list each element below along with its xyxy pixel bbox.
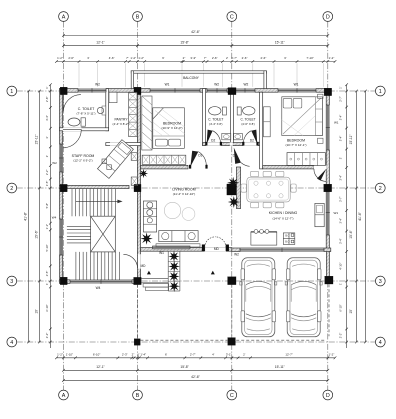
- bedroom2 south wall: [263, 165, 314, 169]
- dining chair left: [241, 184, 246, 192]
- svg-text:MD: MD: [214, 247, 220, 251]
- svg-text:2'-6": 2'-6": [261, 56, 267, 60]
- svg-text:2'-7": 2'-7": [190, 352, 196, 356]
- svg-text:W2: W2: [52, 161, 57, 165]
- svg-text:(14'-6" X 12'-7"): (14'-6" X 12'-7"): [273, 216, 294, 220]
- svg-text:MD: MD: [141, 264, 147, 268]
- svg-text:1'-2": 1'-2": [57, 352, 63, 356]
- svg-text:2'-6": 2'-6": [68, 56, 74, 60]
- dining chairs bottom: [251, 202, 259, 207]
- car 2: [287, 258, 320, 337]
- entry walk border: [167, 252, 169, 291]
- arrow entry 2: [211, 271, 215, 275]
- grid bubble 4 right: [375, 337, 385, 347]
- svg-text:W1: W1: [294, 82, 299, 86]
- svg-text:2'-7": 2'-7": [339, 96, 343, 102]
- fridge: [315, 203, 324, 226]
- stair south wall: [60, 280, 141, 284]
- entry landing edge: [141, 277, 168, 279]
- dim overall top 42'-6": [64, 35, 328, 37]
- svg-text:1'-4": 1'-4": [140, 352, 146, 356]
- bedroom2 west wall: [260, 92, 263, 169]
- svg-text:D2: D2: [250, 138, 254, 142]
- svg-text:STAFF ROOM: STAFF ROOM: [72, 154, 95, 158]
- kitchen hall wall: [236, 167, 240, 209]
- svg-text:1: 1: [379, 89, 382, 95]
- svg-text:(4'-6" X 8'): (4'-6" X 8'): [241, 122, 254, 126]
- svg-text:42'-6": 42'-6": [191, 375, 200, 379]
- svg-text:1'-2": 1'-2": [329, 56, 335, 60]
- plant kitchen 2: [228, 196, 240, 208]
- toilets south wall: [203, 143, 263, 146]
- svg-text:7": 7": [126, 56, 129, 60]
- pantry counter: [109, 92, 117, 103]
- toilets middle wall: [231, 89, 234, 146]
- grid line 2: [17, 187, 381, 189]
- kitchenette counter: [143, 201, 156, 232]
- grid bubble 2 left: [7, 183, 17, 193]
- svg-text:6'-10": 6'-10": [339, 304, 343, 311]
- balcony west wall: [131, 71, 133, 90]
- bedroom2 bedside table bottom: [318, 138, 323, 143]
- door opening toilet D2 right: [243, 142, 257, 145]
- svg-text:2'-6": 2'-6": [212, 56, 218, 60]
- stair north wall: [60, 185, 130, 188]
- svg-text:BEDROOM: BEDROOM: [287, 139, 305, 143]
- grid bubble A top: [59, 12, 69, 22]
- window W4 stair south: [70, 280, 132, 284]
- door opening bedroom1 D1: [190, 165, 206, 169]
- entry walk plants: [168, 251, 179, 262]
- toilet1 wc: [68, 118, 80, 126]
- svg-text:W4: W4: [96, 286, 101, 290]
- svg-text:BEDROOM: BEDROOM: [163, 122, 181, 126]
- grid line A: [63, 22, 65, 391]
- column A3: [60, 277, 67, 284]
- svg-text:KICHEN / DINING: KICHEN / DINING: [269, 211, 298, 215]
- door bedroom2 east leaf+arc: [314, 169, 327, 182]
- svg-text:C: C: [230, 14, 234, 20]
- jamb MD left: [202, 245, 205, 251]
- stair left flight treads: [67, 225, 91, 227]
- window W2 toilet right: [235, 89, 255, 93]
- dining table: [247, 177, 290, 202]
- svg-text:D: D: [326, 393, 330, 399]
- svg-text:3'-1": 3'-1": [226, 352, 232, 356]
- bed bedroom1: [153, 108, 185, 149]
- door bedroom1 D1 dark leaf: [190, 151, 198, 167]
- staff room small item 2: [107, 165, 112, 170]
- grid bubble D bottom: [323, 390, 333, 400]
- staff room side table2: [131, 177, 137, 186]
- svg-text:B: B: [136, 393, 140, 399]
- window W2 garage front: [240, 248, 324, 252]
- svg-text:W1: W1: [334, 120, 339, 124]
- entry steps: [143, 284, 169, 287]
- bedroom1 east wall: [203, 89, 206, 146]
- exterior east wall carport: [326, 251, 329, 281]
- svg-text:1'-2": 1'-2": [130, 56, 136, 60]
- svg-text:D1: D1: [198, 154, 202, 158]
- dim overall right 41'-6": [365, 91, 367, 342]
- svg-text:15'-11": 15'-11": [34, 134, 38, 145]
- svg-text:12'-7": 12'-7": [285, 352, 292, 356]
- column C2: [227, 184, 236, 195]
- grid line 3: [17, 280, 381, 282]
- svg-text:W2: W2: [234, 253, 239, 257]
- jamb MD right: [226, 245, 229, 251]
- grid bubble B top: [133, 12, 143, 22]
- svg-text:D2: D2: [211, 138, 215, 142]
- grid bubble A bottom: [59, 390, 69, 400]
- grid bubble 4 left: [7, 337, 17, 347]
- staff room small item 1: [102, 159, 107, 164]
- svg-text:2'-2": 2'-2": [45, 170, 49, 176]
- svg-text:2'-8": 2'-8": [45, 97, 49, 103]
- svg-text:(10'-9" X 12'-0"): (10'-9" X 12'-0"): [162, 126, 183, 130]
- column C4: [228, 338, 236, 346]
- dim right detail: [346, 85, 348, 348]
- toilet2 wc: [209, 107, 221, 115]
- svg-text:(11'-4" X 12'-10"): (11'-4" X 12'-10"): [173, 192, 195, 196]
- svg-text:W2: W2: [244, 82, 249, 86]
- door opening staff room: [63, 128, 81, 131]
- svg-text:BALCONY: BALCONY: [183, 76, 200, 80]
- column A1: [60, 87, 67, 94]
- bedroom2 desk: [264, 107, 271, 137]
- svg-text:(4'-4" X 8'-2"): (4'-4" X 8'-2"): [113, 122, 130, 126]
- grid bubble 3 right: [375, 276, 385, 286]
- column B4: [134, 339, 140, 345]
- svg-text:1'-2": 1'-2": [57, 56, 63, 60]
- svg-text:B.O: B.O: [285, 241, 289, 244]
- exterior west wall: [60, 89, 63, 284]
- column D2: [324, 184, 332, 192]
- svg-text:15'-11": 15'-11": [349, 134, 353, 145]
- door toilet1 leaf+arc: [63, 95, 81, 113]
- svg-text:12'-1": 12'-1": [96, 365, 105, 369]
- svg-text:3: 3: [10, 279, 13, 285]
- main door MD opening: [205, 247, 227, 251]
- svg-text:(7'-8" X 5'-11"): (7'-8" X 5'-11"): [76, 112, 95, 116]
- svg-text:10': 10': [34, 309, 38, 314]
- door toilet D2 left dark leaf: [207, 130, 213, 145]
- dim extension lines top: [78, 63, 80, 87]
- svg-text:3'-3": 3'-3": [190, 56, 196, 60]
- svg-text:2: 2: [379, 186, 382, 192]
- grid line C: [231, 22, 233, 391]
- plant hall corner: [139, 169, 148, 178]
- svg-text:6'-10": 6'-10": [45, 304, 49, 311]
- column D3: [325, 276, 333, 284]
- balcony east wall: [264, 71, 267, 90]
- dining chair right: [291, 184, 296, 192]
- svg-text:3'-4": 3'-4": [339, 115, 343, 121]
- svg-text:2'-3": 2'-3": [122, 352, 128, 356]
- door opening pantry: [110, 142, 122, 145]
- kitchen counter stove: [251, 232, 277, 245]
- svg-text:3'-4": 3'-4": [339, 136, 343, 142]
- svg-text:1'-1": 1'-1": [45, 224, 49, 230]
- dim overall left 41'-8": [28, 91, 30, 342]
- svg-text:W1: W1: [165, 82, 170, 86]
- svg-text:15'-11": 15'-11": [275, 40, 286, 44]
- svg-text:15'-8": 15'-8": [180, 365, 189, 369]
- svg-text:1'-5": 1'-5": [45, 181, 49, 187]
- column C1: [228, 88, 236, 95]
- kitchen cabinet BO: [283, 233, 295, 245]
- toilet1 east wall: [106, 89, 109, 131]
- svg-text:B.C: B.C: [285, 235, 289, 238]
- ceiling fan ghost: [164, 202, 180, 218]
- svg-text:7'-10": 7'-10": [306, 56, 313, 60]
- svg-text:W1: W1: [334, 211, 339, 215]
- svg-text:15'-11": 15'-11": [275, 365, 286, 369]
- svg-text:15'-8": 15'-8": [180, 40, 189, 44]
- svg-text:2'-6": 2'-6": [242, 56, 248, 60]
- dim left detail: [49, 85, 51, 348]
- door jambs dark blocks: [205, 142, 207, 146]
- svg-text:D: D: [326, 14, 330, 20]
- arrow entry 1: [147, 271, 151, 275]
- toilet1 basin: [97, 107, 103, 113]
- grid line B: [137, 22, 139, 391]
- svg-text:42'-6": 42'-6": [191, 30, 200, 34]
- plant kitchen 1: [227, 177, 239, 189]
- entry walk cells: [168, 260, 180, 262]
- grid line 1: [17, 90, 381, 92]
- svg-text:2": 2": [183, 56, 186, 60]
- sofa living room: [159, 231, 198, 242]
- garage front wall: [232, 248, 331, 252]
- svg-text:2": 2": [132, 352, 135, 356]
- door opening bedroom2 east: [314, 165, 327, 169]
- dining chairs top: [251, 171, 259, 176]
- window W1 bedroom1: [150, 89, 200, 93]
- svg-text:W2: W2: [214, 82, 219, 86]
- window W2 staff room: [60, 144, 63, 172]
- svg-text:5'-10": 5'-10": [45, 244, 49, 251]
- svg-text:6'-10": 6'-10": [93, 352, 100, 356]
- staff room side table1: [131, 153, 137, 161]
- svg-text:C. TOILET: C. TOILET: [78, 107, 95, 111]
- door bedroom2 east dark leaf: [317, 169, 326, 181]
- grid bubble D top: [323, 12, 333, 22]
- plant living room: [140, 232, 152, 244]
- svg-text:PANTRY: PANTRY: [114, 118, 128, 122]
- svg-text:3'-4": 3'-4": [45, 115, 49, 121]
- svg-text:2'-5": 2'-5": [45, 271, 49, 277]
- svg-text:(10'-7" X 12'-1"): (10'-7" X 12'-1"): [286, 143, 307, 147]
- svg-text:41'-6": 41'-6": [358, 211, 362, 220]
- pantry south wall: [106, 143, 141, 146]
- column B1: [134, 87, 141, 94]
- toilet3 wc: [243, 107, 255, 115]
- svg-text:15'-6": 15'-6": [349, 229, 353, 238]
- svg-text:W4: W4: [52, 215, 57, 219]
- svg-text:2: 2: [10, 186, 13, 192]
- column D1: [324, 88, 331, 95]
- toilet1 south wall: [60, 128, 109, 131]
- svg-text:4: 4: [10, 340, 13, 346]
- window W4 stairwell: [60, 219, 63, 255]
- living room front wall: [141, 248, 232, 252]
- carport boundary dashed: [231, 285, 233, 336]
- dim left bays: [39, 91, 41, 342]
- svg-text:2'-2": 2'-2": [339, 333, 343, 339]
- main door MD double arc: [205, 237, 226, 248]
- dim overall bottom 42'-6": [64, 379, 328, 381]
- svg-text:(4'-4" X 8'): (4'-4" X 8'): [209, 122, 222, 126]
- bedroom2 wardrobe: [287, 153, 325, 166]
- svg-text:C: C: [230, 393, 234, 399]
- svg-text:(12'-2" X 9'-2"): (12'-2" X 9'-2"): [73, 159, 92, 163]
- column C3: [228, 277, 236, 285]
- wall on grid B: [138, 89, 141, 284]
- window W2 toilet left: [207, 89, 227, 93]
- svg-text:1'-10": 1'-10": [66, 352, 73, 356]
- svg-text:A: A: [62, 393, 66, 399]
- grid bubble 2 right: [375, 183, 385, 193]
- grid bubble 3 left: [7, 276, 17, 286]
- svg-text:4'-6": 4'-6": [109, 56, 115, 60]
- svg-text:A: A: [62, 14, 66, 20]
- stair lower flight treads: [75, 252, 77, 280]
- bed bedroom2: [282, 97, 323, 136]
- column A2: [60, 184, 67, 191]
- bedroom1 dresser: [142, 155, 186, 164]
- bedroom1 wardrobe: [142, 96, 152, 150]
- svg-text:W2: W2: [95, 82, 100, 86]
- window W1 kitchen east: [326, 190, 329, 235]
- column B2: [134, 184, 141, 191]
- svg-text:C. TOILET: C. TOILET: [208, 118, 223, 122]
- svg-text:LIVING ROOM: LIVING ROOM: [172, 188, 195, 192]
- stair door in B wall: [137, 254, 141, 269]
- stair landing X box: [91, 216, 116, 252]
- car 1: [242, 258, 275, 337]
- door bedroom2 D1 dark leaf: [234, 148, 241, 164]
- svg-text:4: 4: [379, 340, 382, 346]
- window W1 living front hatched sill: [153, 246, 191, 249]
- grid line 4: [17, 341, 381, 343]
- svg-text:1'-2": 1'-2": [329, 352, 335, 356]
- sofa back rail: [156, 244, 200, 247]
- svg-text:1: 1: [10, 89, 13, 95]
- dim bottom bays: [64, 369, 328, 371]
- dim top bays: [64, 45, 328, 47]
- svg-text:W1: W1: [159, 251, 164, 255]
- grid bubble C top: [227, 12, 237, 22]
- dim bottom detail: [57, 357, 336, 359]
- column B3: [134, 277, 142, 284]
- svg-text:B: B: [136, 14, 140, 20]
- door toilet D2 right dark leaf: [251, 130, 257, 145]
- svg-text:3'-4": 3'-4": [339, 175, 343, 181]
- svg-text:15'-6": 15'-6": [34, 229, 38, 238]
- toilet2 basin: [222, 133, 231, 139]
- toilet3 basin: [233, 133, 242, 139]
- svg-text:3: 3: [379, 279, 382, 285]
- window W2 toilet1: [78, 89, 106, 93]
- svg-text:5'-8": 5'-8": [45, 203, 49, 209]
- grid bubble 1 right: [375, 86, 385, 96]
- grid bubble B bottom: [133, 390, 143, 400]
- dim right bays: [356, 91, 358, 342]
- grid line D: [327, 22, 329, 391]
- window W1 bedroom2 east: [326, 105, 329, 150]
- bedroom1 south wall: [141, 165, 188, 169]
- svg-text:3'-4": 3'-4": [339, 238, 343, 244]
- svg-text:1'-2": 1'-2": [138, 56, 144, 60]
- svg-text:41'-8": 41'-8": [23, 211, 27, 220]
- stair upper flight treads: [71, 189, 73, 216]
- door opening bedroom2 D1: [230, 142, 233, 145]
- svg-text:7": 7": [204, 56, 207, 60]
- exterior north wall: [60, 89, 331, 93]
- dim top detail: [57, 61, 336, 63]
- exterior east wall upper: [326, 90, 329, 251]
- svg-text:4'-10": 4'-10": [339, 263, 343, 270]
- grid bubble 1 left: [7, 86, 17, 96]
- svg-text:2'-2": 2'-2": [45, 333, 49, 339]
- staff room bed: [97, 140, 133, 179]
- bedroom2 bedside table top: [318, 94, 323, 98]
- svg-text:3'-7": 3'-7": [339, 196, 343, 202]
- svg-text:D1: D1: [233, 154, 237, 158]
- svg-text:10': 10': [349, 309, 353, 314]
- pantry shelves: [129, 93, 138, 137]
- window W1 bedroom2: [278, 89, 316, 93]
- svg-text:C. TOILET: C. TOILET: [240, 118, 255, 122]
- svg-text:3'-4": 3'-4": [339, 218, 343, 224]
- balcony north wall: [131, 71, 266, 73]
- door opening toilet D2 left: [206, 142, 221, 145]
- svg-text:12'-1": 12'-1": [96, 40, 105, 44]
- door staff room leaf+arc: [63, 129, 81, 147]
- svg-text:3'-7": 3'-7": [231, 56, 237, 60]
- grid bubble C bottom: [227, 390, 237, 400]
